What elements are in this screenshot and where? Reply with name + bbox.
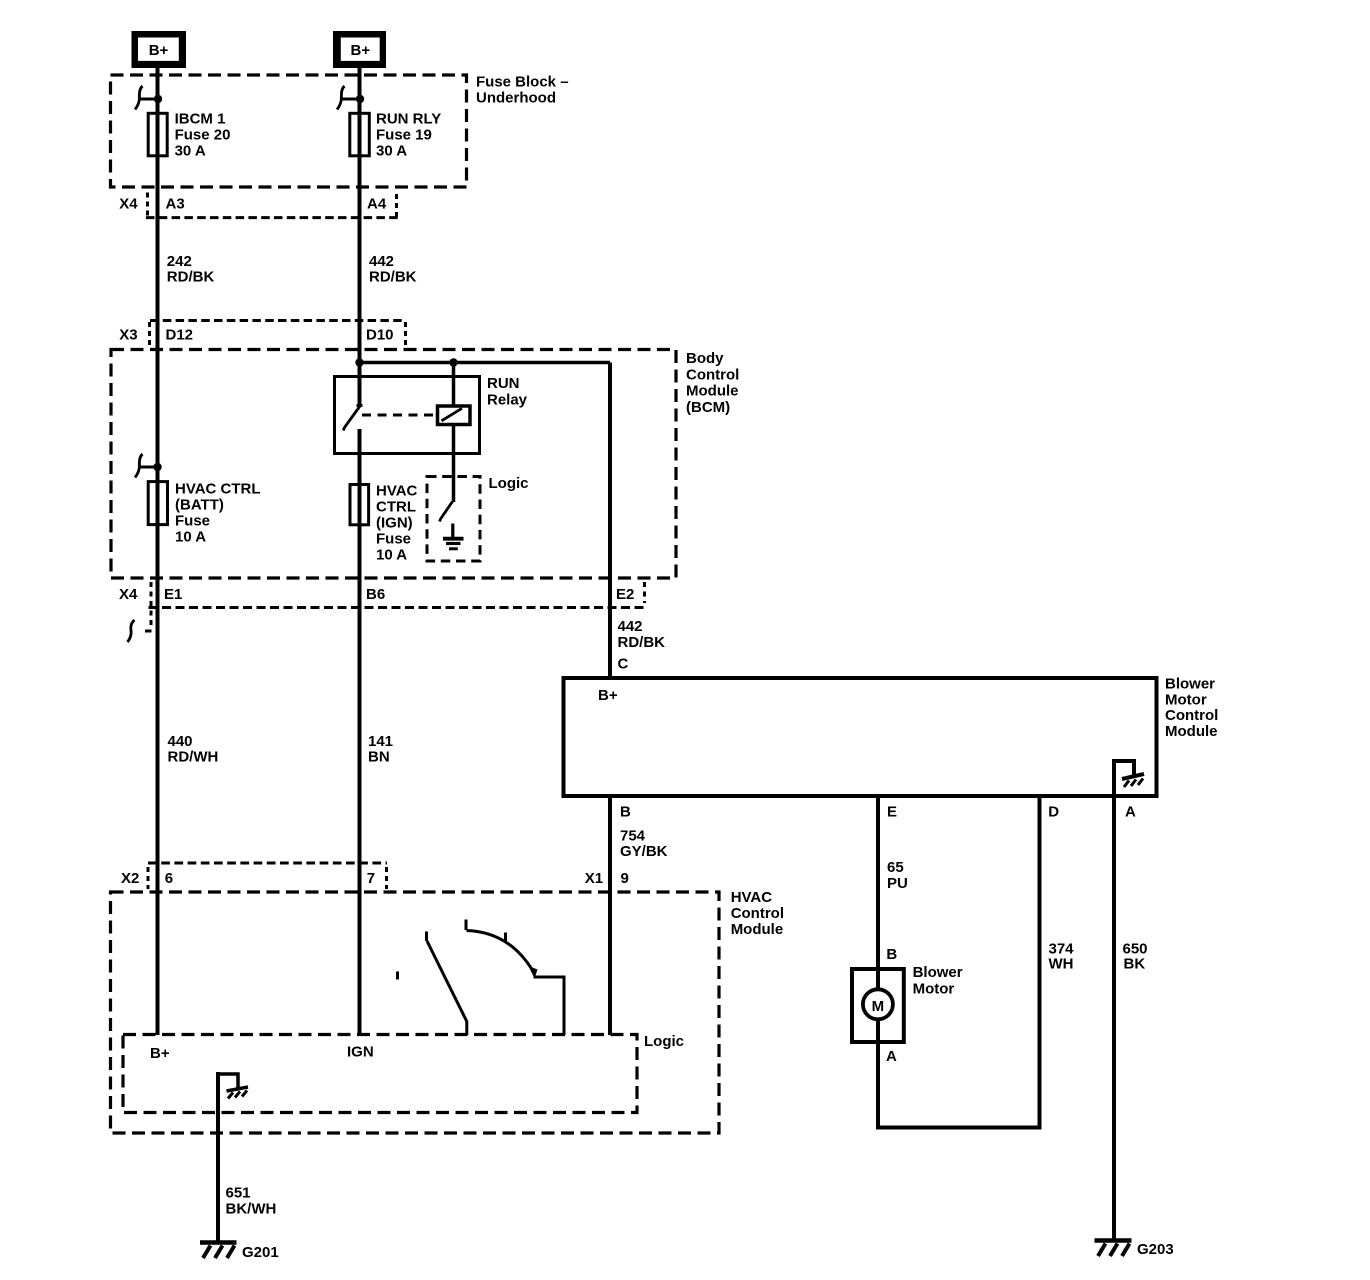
svg-text:Control: Control (731, 905, 784, 922)
svg-text:PU: PU (887, 875, 908, 892)
svg-text:X3: X3 (119, 327, 137, 344)
svg-text:B6: B6 (366, 586, 385, 603)
svg-text:Body: Body (686, 350, 724, 367)
svg-text:65: 65 (887, 859, 904, 876)
svg-text:9: 9 (621, 870, 629, 887)
svg-text:BK/WH: BK/WH (226, 1201, 277, 1218)
svg-text:Underhood: Underhood (476, 90, 556, 107)
svg-text:RD/BK: RD/BK (618, 634, 666, 651)
svg-text:442: 442 (369, 253, 394, 270)
svg-text:M: M (872, 998, 885, 1015)
svg-text:754: 754 (620, 828, 646, 845)
svg-text:Fuse Block –: Fuse Block – (476, 74, 569, 91)
svg-text:X2: X2 (121, 870, 139, 887)
svg-text:Relay: Relay (487, 391, 528, 408)
svg-text:10 A: 10 A (175, 528, 206, 545)
svg-text:G201: G201 (242, 1244, 279, 1261)
svg-text:Module: Module (686, 383, 739, 400)
svg-text:Module: Module (1165, 723, 1218, 740)
svg-text:C: C (618, 656, 629, 673)
svg-text:A3: A3 (166, 196, 185, 213)
svg-text:30 A: 30 A (175, 143, 206, 160)
svg-text:Motor: Motor (1165, 691, 1207, 708)
svg-text:X4: X4 (119, 196, 138, 213)
svg-text:6: 6 (165, 870, 173, 887)
svg-text:Logic: Logic (644, 1033, 684, 1050)
svg-text:A: A (1125, 804, 1136, 821)
svg-text:Fuse 20: Fuse 20 (175, 127, 231, 144)
svg-text:Fuse 19: Fuse 19 (376, 127, 432, 144)
svg-text:IBCM 1: IBCM 1 (175, 111, 226, 128)
svg-text:B+: B+ (149, 42, 169, 59)
svg-text:Control: Control (686, 366, 739, 383)
svg-text:B+: B+ (598, 687, 618, 704)
svg-text:E2: E2 (616, 586, 634, 603)
svg-text:WH: WH (1049, 956, 1074, 973)
svg-text:E1: E1 (164, 586, 182, 603)
svg-text:RUN RLY: RUN RLY (376, 111, 441, 128)
svg-text:E: E (887, 804, 897, 821)
svg-text:Fuse: Fuse (175, 512, 210, 529)
svg-text:IGN: IGN (347, 1044, 374, 1061)
svg-text:(BATT): (BATT) (175, 496, 224, 513)
svg-text:Logic: Logic (489, 475, 529, 492)
svg-text:B: B (886, 946, 897, 963)
svg-text:A: A (886, 1048, 897, 1065)
svg-text:Motor: Motor (913, 981, 955, 998)
svg-text:GY/BK: GY/BK (620, 843, 668, 860)
svg-text:30 A: 30 A (376, 143, 407, 160)
svg-text:CTRL: CTRL (376, 499, 416, 516)
svg-text:D10: D10 (366, 327, 394, 344)
svg-text:Module: Module (731, 921, 784, 938)
svg-text:B+: B+ (351, 42, 371, 59)
svg-text:440: 440 (168, 733, 193, 750)
svg-text:G203: G203 (1137, 1241, 1174, 1258)
svg-text:BN: BN (368, 749, 390, 766)
svg-text:RD/WH: RD/WH (168, 749, 219, 766)
svg-text:BK: BK (1124, 956, 1146, 973)
svg-text:RD/BK: RD/BK (369, 269, 417, 286)
svg-text:B+: B+ (150, 1045, 170, 1062)
svg-text:X1: X1 (585, 870, 603, 887)
svg-text:D: D (1048, 804, 1059, 821)
svg-text:RD/BK: RD/BK (167, 269, 215, 286)
svg-text:HVAC: HVAC (731, 889, 773, 906)
svg-text:442: 442 (618, 618, 643, 635)
svg-text:651: 651 (226, 1185, 251, 1202)
svg-text:HVAC CTRL: HVAC CTRL (175, 480, 261, 497)
svg-text:RUN: RUN (487, 375, 520, 392)
svg-text:D12: D12 (166, 327, 194, 344)
svg-text:X4: X4 (119, 586, 138, 603)
svg-text:10 A: 10 A (376, 547, 407, 564)
svg-text:141: 141 (368, 733, 393, 750)
svg-text:Blower: Blower (913, 964, 963, 981)
svg-text:A4: A4 (367, 196, 387, 213)
svg-text:Fuse: Fuse (376, 531, 411, 548)
svg-text:(IGN): (IGN) (376, 515, 413, 532)
svg-text:7: 7 (367, 870, 375, 887)
svg-text:HVAC: HVAC (376, 483, 418, 500)
svg-text:Blower: Blower (1165, 676, 1215, 693)
svg-text:242: 242 (167, 253, 192, 270)
svg-text:B: B (620, 804, 631, 821)
svg-text:(BCM): (BCM) (686, 399, 730, 416)
svg-text:Control: Control (1165, 707, 1218, 724)
